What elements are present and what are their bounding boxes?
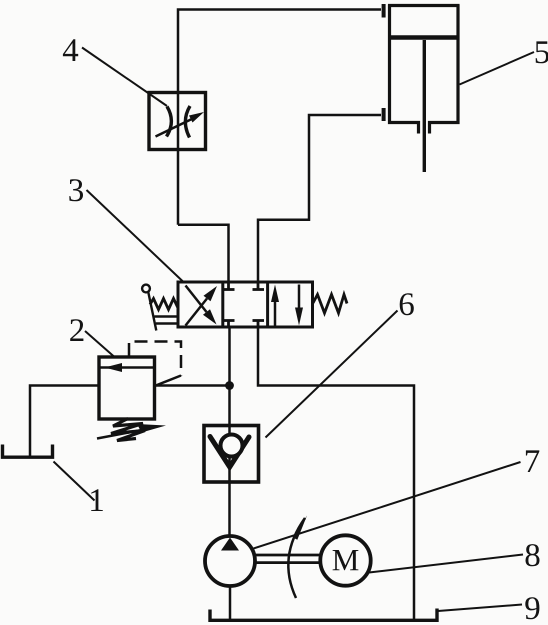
relief valve adjust arrow [97, 424, 166, 439]
wire relief inlet from junction [155, 384, 230, 387]
valve right position up arrow [271, 285, 279, 326]
throttle arcs [167, 106, 191, 138]
wire pump to tank 9 [229, 586, 232, 620]
leader line 2 [85, 331, 115, 357]
port tick cylinder top [382, 4, 386, 18]
tank 1 [3, 445, 53, 458]
leader line 1 [54, 462, 95, 501]
check valve seat V [210, 437, 249, 468]
wire relief outlet to tank 1 [30, 386, 99, 458]
wire throttle to valve port A [178, 225, 229, 282]
relief valve spring [111, 419, 145, 441]
leader line 4 [82, 48, 167, 107]
relief valve 2 box [99, 357, 155, 419]
motor 8 circle [320, 535, 370, 585]
wire T line valve to tank [258, 327, 414, 619]
valve left spring [150, 299, 178, 310]
valve right spring [313, 295, 347, 314]
wire cylinder lower port to valve port B [258, 115, 381, 282]
label 2 [70, 319, 83, 341]
throttle adjust arrow [156, 112, 205, 137]
leader line 5 [460, 52, 535, 85]
cylinder 5 body [388, 5, 460, 134]
valve lever actuator [142, 285, 178, 331]
wire top line from throttle to cylinder [178, 10, 381, 225]
check valve ball [221, 435, 243, 457]
pump flow triangle [221, 538, 239, 551]
cylinder piston [390, 35, 458, 39]
cylinder rod [423, 40, 426, 172]
label 5 [536, 41, 548, 63]
label 8 [526, 544, 540, 566]
label 7 [526, 450, 539, 472]
wire P line valve to pump [228, 327, 231, 536]
leader line 7 [254, 462, 521, 549]
tank 9 [210, 609, 437, 621]
port tick cylinder bottom [382, 108, 386, 121]
valve left position crossed arrows [186, 286, 218, 326]
label 6 [400, 293, 414, 315]
shaft pump to motor [255, 555, 321, 563]
leader line 9 [438, 605, 522, 612]
relief valve internal arrow [99, 363, 155, 372]
valve centre blocked ports [223, 284, 264, 326]
label 3 [69, 179, 83, 201]
rotation arc arrow [288, 516, 307, 599]
relief valve pilot dashed line [129, 342, 181, 376]
leader line 3 [87, 190, 185, 283]
relief valve pilot diagonal [155, 376, 182, 387]
leader line 6 [266, 311, 398, 438]
throttle valve 4 box [149, 93, 206, 150]
label 1 [91, 489, 103, 511]
leader line 8 [369, 555, 523, 573]
valve right position down arrow [295, 285, 303, 326]
label 4 [63, 39, 78, 61]
node junction dot [225, 381, 234, 390]
check valve 6 box [204, 426, 259, 483]
valve U1 body (3-position directional valve 3) [178, 282, 313, 327]
motor letter M [333, 550, 359, 570]
pump 7 circle [205, 536, 255, 586]
label 9 [525, 597, 539, 619]
